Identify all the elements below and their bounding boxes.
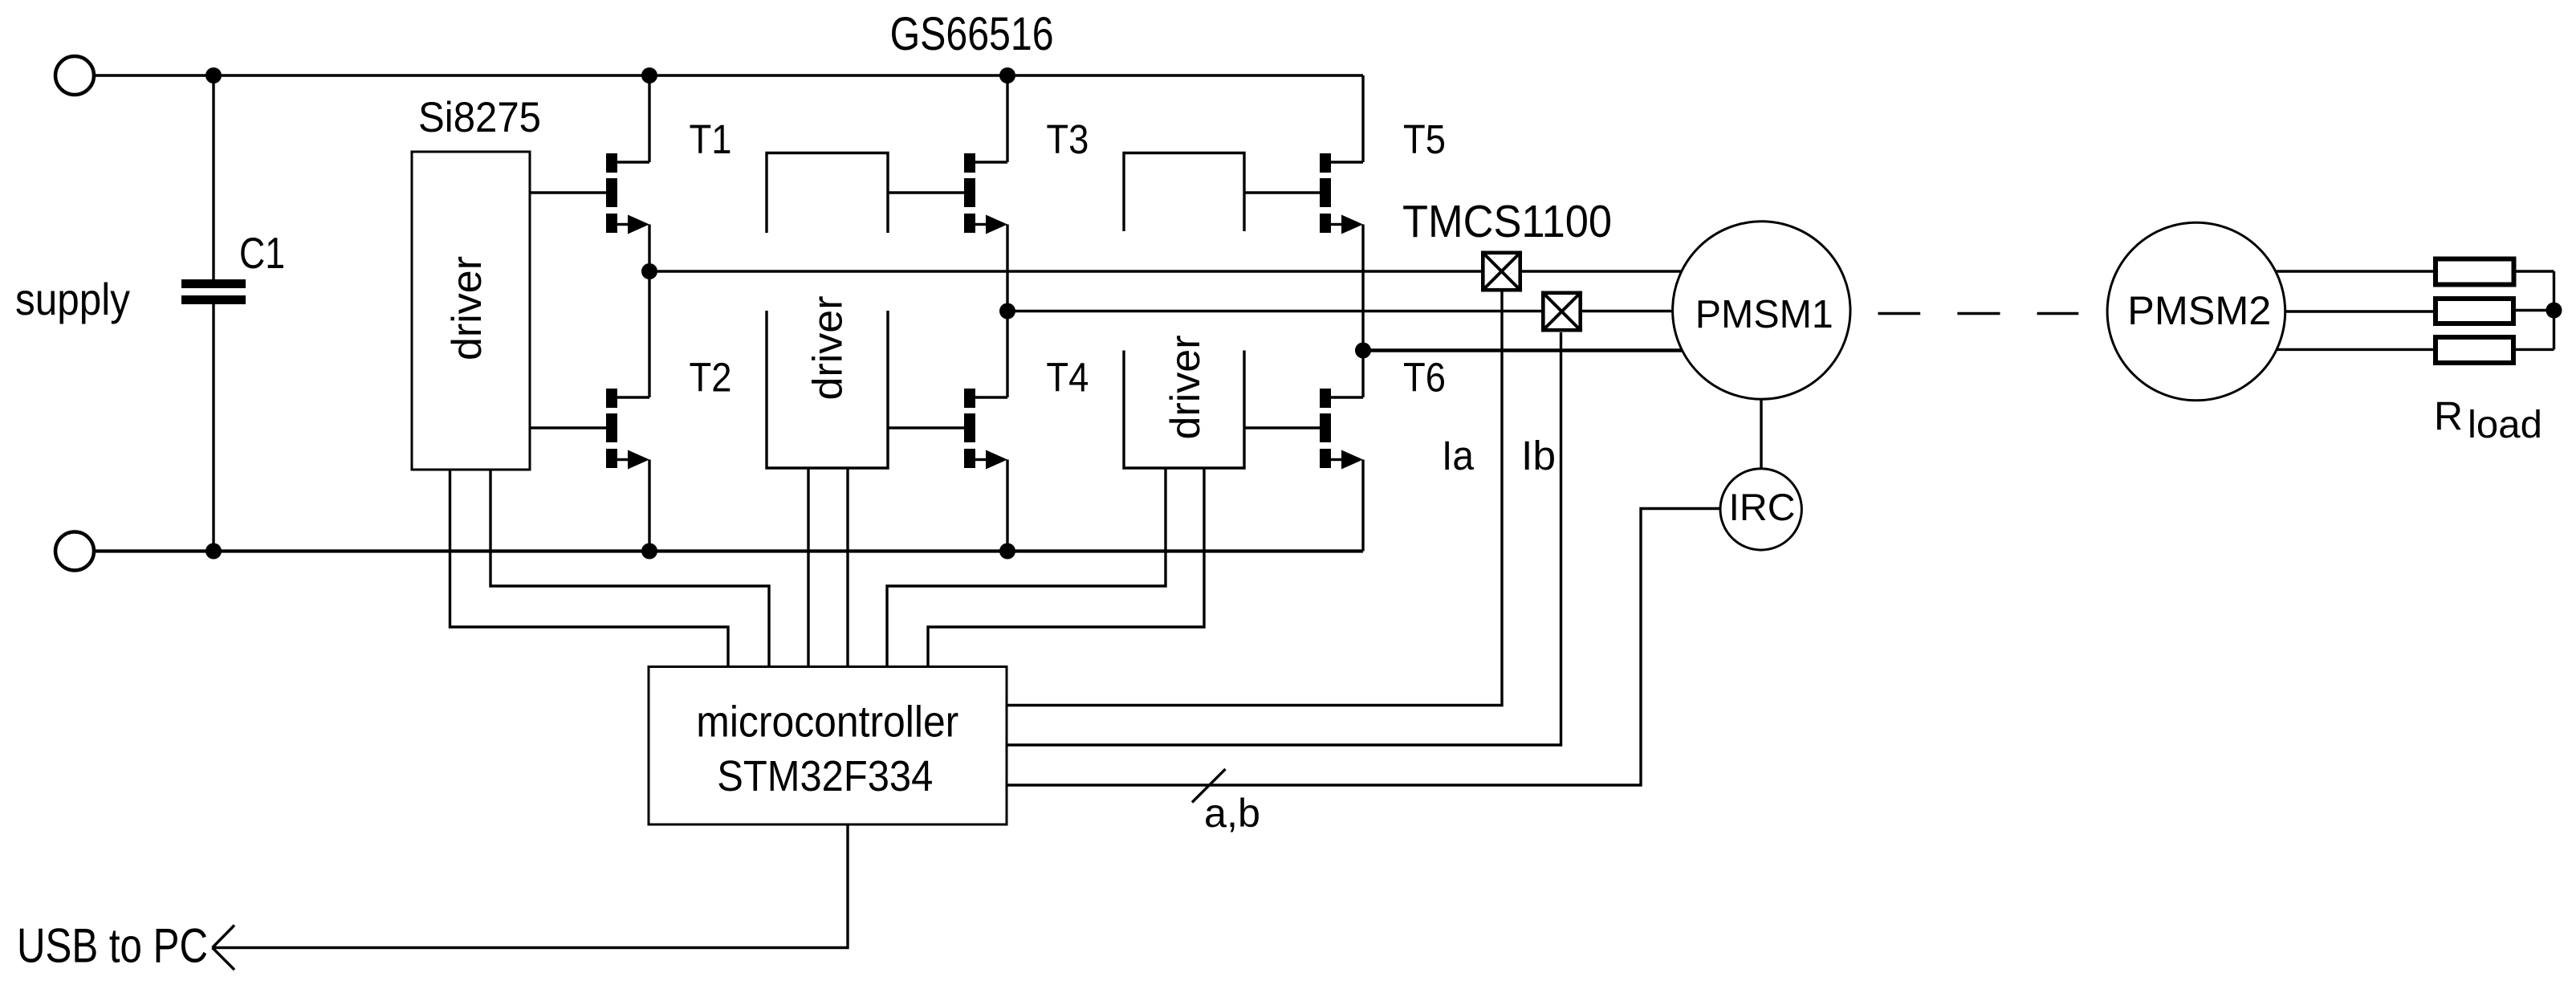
svg-text:Ib: Ib bbox=[1521, 433, 1556, 478]
svg-text:a,b: a,b bbox=[1204, 791, 1260, 836]
svg-text:GS66516: GS66516 bbox=[890, 8, 1054, 60]
svg-text:T2: T2 bbox=[690, 355, 732, 401]
svg-text:USB to PC: USB to PC bbox=[17, 919, 208, 973]
svg-text:supply: supply bbox=[15, 274, 130, 324]
svg-text:T3: T3 bbox=[1046, 116, 1089, 162]
svg-text:T4: T4 bbox=[1046, 355, 1089, 401]
svg-text:driver: driver bbox=[444, 256, 490, 360]
svg-text:T1: T1 bbox=[690, 116, 732, 162]
svg-text:Si8275: Si8275 bbox=[418, 94, 541, 141]
svg-text:R: R bbox=[2434, 394, 2463, 439]
svg-text:C1: C1 bbox=[239, 228, 285, 278]
svg-text:TMCS1100: TMCS1100 bbox=[1402, 196, 1612, 247]
svg-text:PMSM1: PMSM1 bbox=[1695, 293, 1833, 336]
svg-text:microcontroller: microcontroller bbox=[696, 696, 958, 746]
svg-text:driver: driver bbox=[805, 295, 852, 400]
svg-text:STM32F334: STM32F334 bbox=[717, 752, 933, 800]
svg-text:driver: driver bbox=[1162, 335, 1209, 439]
svg-text:T5: T5 bbox=[1403, 116, 1446, 162]
svg-text:T6: T6 bbox=[1403, 355, 1446, 401]
svg-text:Ia: Ia bbox=[1442, 433, 1475, 478]
svg-text:load: load bbox=[2468, 404, 2542, 446]
svg-text:IRC: IRC bbox=[1729, 486, 1796, 528]
svg-text:PMSM2: PMSM2 bbox=[2127, 288, 2271, 333]
